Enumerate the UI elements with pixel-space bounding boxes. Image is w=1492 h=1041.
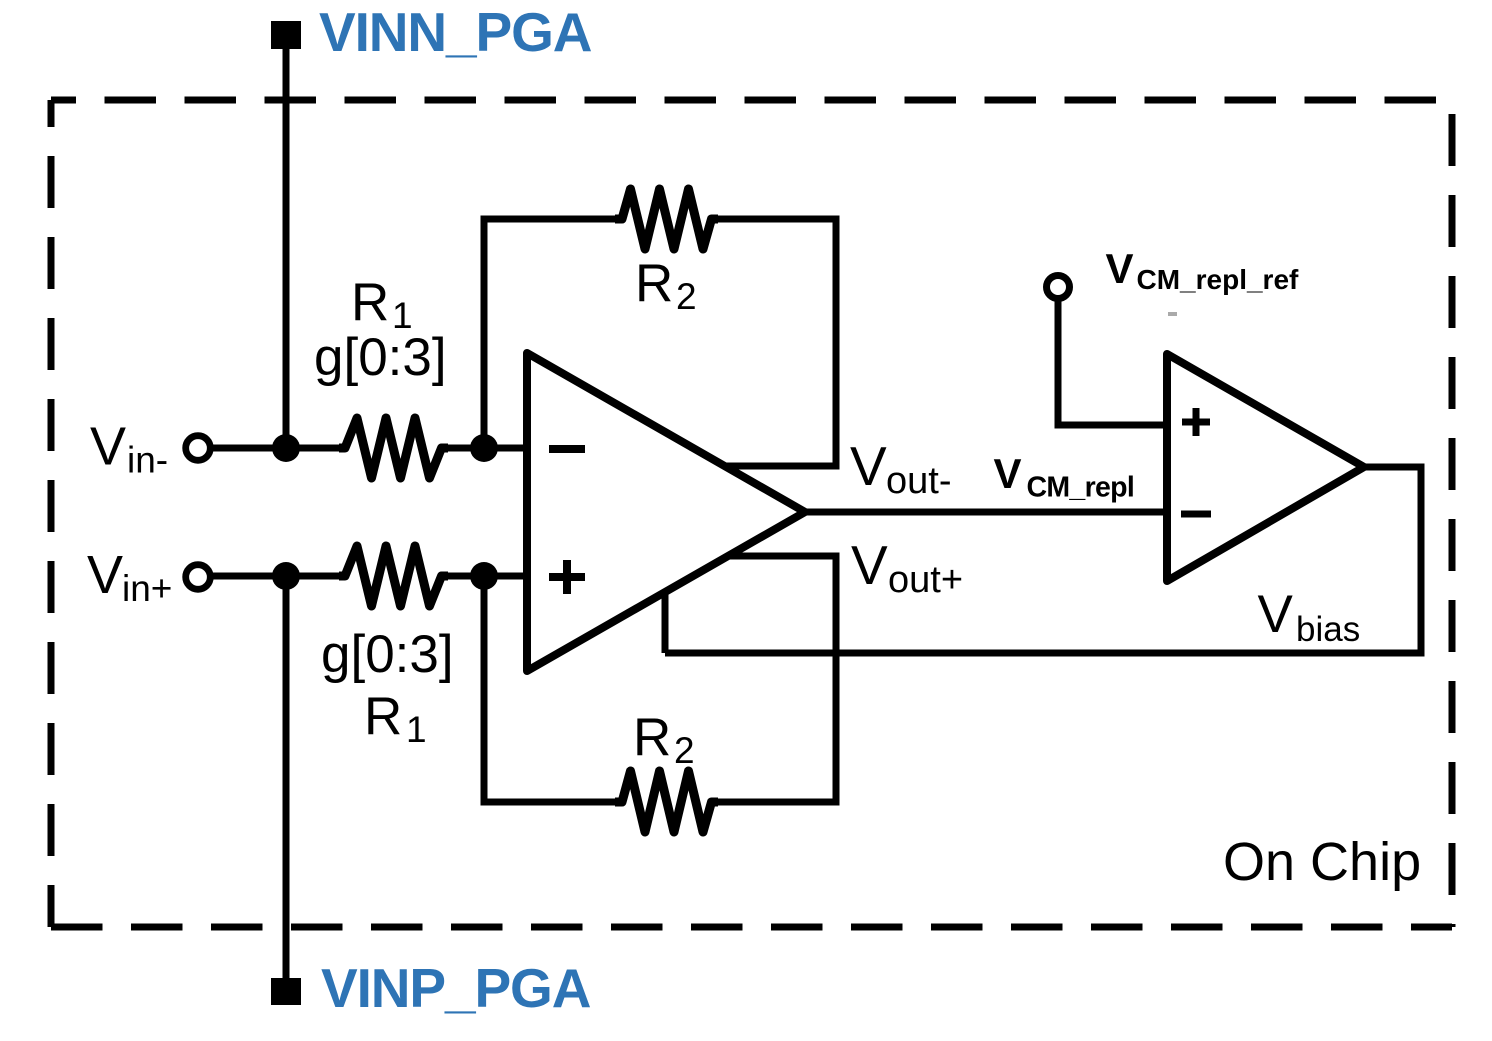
wire Vin+ input to R1 xyxy=(213,573,346,580)
wire bottom feedback: left horizontal to R2 xyxy=(481,799,623,806)
svg-text:g[0:3]: g[0:3] xyxy=(321,625,454,684)
node junction dot Vin+/VINP wire xyxy=(272,562,300,590)
svg-text:out-: out- xyxy=(886,460,951,502)
op-amp U2 non-inverting input mark (+) xyxy=(1182,419,1210,426)
wire top feedback: right horizontal from R2 xyxy=(712,216,837,223)
svg-text:V: V xyxy=(87,545,123,605)
svg-text:1: 1 xyxy=(406,709,427,750)
On Chip dashed boundary: left edge xyxy=(48,100,55,927)
node junction dot inverting input / top feedback xyxy=(470,434,498,462)
svg-text:V: V xyxy=(1258,585,1294,644)
wire Vbias stub from op-amp lower edge xyxy=(662,588,669,653)
svg-text:2: 2 xyxy=(674,730,695,771)
svg-text:R: R xyxy=(633,708,671,767)
node junction dot Vin-/VINN wire xyxy=(272,434,300,462)
wire VINN_PGA down to Vin- node xyxy=(283,49,290,448)
svg-text:V: V xyxy=(994,450,1022,497)
svg-text:V: V xyxy=(850,435,887,497)
wire Vin- input to R1 xyxy=(213,445,346,452)
wire top feedback: left horizontal to R2 xyxy=(481,216,623,223)
svg-text:V: V xyxy=(90,417,126,477)
op-amp U1 inverting input mark (-) xyxy=(549,445,585,453)
wire Vbias horizontal run xyxy=(665,650,1421,657)
resistor R1 (bottom, Vin+ path) xyxy=(339,546,448,606)
wire VCM_repl_ref to U2 non-inverting input xyxy=(1055,422,1168,429)
op-amp U1 (fully differential PGA amplifier) xyxy=(527,353,805,671)
wire R1 to op-amp inverting input xyxy=(442,445,528,452)
svg-text:VINN_PGA: VINN_PGA xyxy=(319,1,592,63)
On Chip dashed boundary: bottom edge xyxy=(51,924,1452,931)
On Chip dashed boundary: top edge xyxy=(51,97,1452,104)
wire top feedback: down to Vout- stub xyxy=(833,216,840,467)
wire Vout+ stub to op-amp output edge xyxy=(723,553,840,560)
svg-text:in-: in- xyxy=(127,440,168,481)
wire VCM_repl_ref down xyxy=(1055,299,1062,425)
wire bottom feedback: down from non-inverting node xyxy=(481,576,488,802)
svg-text:VINP_PGA: VINP_PGA xyxy=(321,957,591,1019)
svg-text:On Chip: On Chip xyxy=(1223,832,1421,892)
terminal VINN_PGA (square pad) xyxy=(271,21,301,49)
op-amp U1 non-inverting input mark (+) xyxy=(549,573,585,581)
svg-text:V: V xyxy=(1106,245,1134,292)
svg-text:g[0:3]: g[0:3] xyxy=(314,328,447,387)
terminal Vin+ (open circle) xyxy=(186,565,211,590)
wire Vout- stub to op-amp output edge xyxy=(720,463,840,470)
artifact gray tick (from source image) xyxy=(1168,312,1177,316)
terminal VCM_repl_ref (open circle) xyxy=(1047,276,1070,299)
terminal Vin- (open circle) xyxy=(186,436,211,461)
wire bottom feedback: up to Vout+ stub xyxy=(833,556,840,806)
wire top feedback: up from inverting node xyxy=(481,219,488,448)
op-amp U2 inverting input mark (-) xyxy=(1181,511,1211,518)
svg-text:R: R xyxy=(351,273,389,332)
resistor R1 (top, Vin- path) xyxy=(339,418,448,478)
svg-text:2: 2 xyxy=(676,276,697,317)
resistor R2 (bottom feedback) xyxy=(615,771,718,832)
node junction dot non-inverting input / bottom feedback xyxy=(470,562,498,590)
svg-text:bias: bias xyxy=(1296,610,1360,649)
svg-text:R: R xyxy=(635,254,673,313)
wire VINP_PGA up to Vin+ node xyxy=(283,576,290,978)
svg-text:CM_repl_ref: CM_repl_ref xyxy=(1137,264,1300,295)
svg-text:out+: out+ xyxy=(888,559,963,601)
wire op-amp U2 output to Vbias corner xyxy=(1364,464,1425,471)
wire bottom feedback: right horizontal from R2 xyxy=(712,799,837,806)
On Chip dashed boundary: right edge xyxy=(1449,100,1456,927)
resistor R2 (top feedback) xyxy=(615,189,718,249)
svg-text:CM_repl: CM_repl xyxy=(1027,472,1135,504)
svg-text:V: V xyxy=(851,534,888,596)
wire R1 to op-amp non-inverting input xyxy=(442,573,528,580)
svg-text:R: R xyxy=(364,687,402,746)
op-amp U2 (common-mode replica buffer) xyxy=(1167,354,1364,581)
wire Vbias vertical up to op-amp U2 output xyxy=(1418,467,1425,657)
terminal VINP_PGA (square pad) xyxy=(271,978,301,1005)
wire VCM_repl: U1 output to U2 inverting input xyxy=(805,509,1167,516)
svg-text:in+: in+ xyxy=(122,568,172,609)
